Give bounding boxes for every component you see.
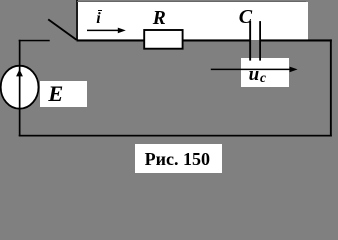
- label u_c: [249, 65, 260, 84]
- wire: left vertical side (through source): [19, 40, 21, 136]
- node box u_c label background: [241, 58, 289, 88]
- current arrow i: [87, 28, 126, 34]
- resistor R: [144, 30, 182, 49]
- wire: bottom side: [19, 135, 332, 137]
- node box E label background: [40, 81, 88, 108]
- label i (complex current): [96, 11, 100, 27]
- label u_c subscript c: [260, 71, 266, 85]
- voltage arrow u_c: [211, 67, 298, 73]
- wire: right vertical side: [330, 39, 332, 136]
- label i macron bar: [98, 10, 102, 12]
- label E: [48, 83, 63, 106]
- source E (circle): [1, 66, 39, 109]
- wire: top segment from capacitor right plate to right corner: [260, 39, 332, 41]
- capacitor C right plate: [259, 21, 261, 61]
- caption Puc. 150: [145, 150, 210, 168]
- switch S (open blade): [48, 19, 76, 40]
- caption box: [135, 144, 222, 173]
- capacitor C left plate: [249, 21, 251, 61]
- label box left border: [76, 0, 78, 40]
- label box top border: [77, 1, 306, 2]
- label R: [153, 9, 166, 29]
- source E emf arrowhead (up): [16, 69, 23, 76]
- wire: top segment from switch to capacitor left plate: [77, 39, 252, 41]
- label box (top, holds i R C labels): [77, 2, 308, 40]
- label C: [239, 7, 252, 27]
- wire: left horizontal switch lead: [19, 40, 50, 42]
